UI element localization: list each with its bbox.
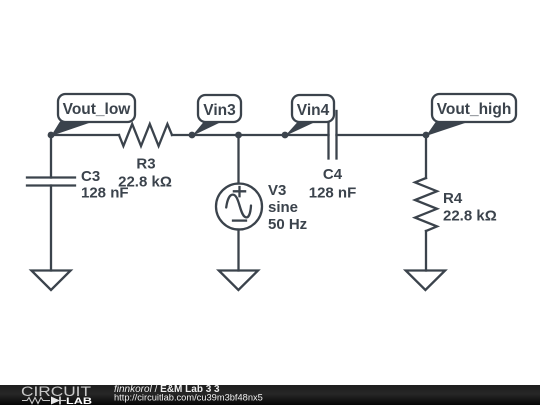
node Vin4 junction dot xyxy=(282,132,289,139)
net flag pointer Vout_high xyxy=(426,122,465,137)
net flag pointer Vin4 xyxy=(285,122,313,137)
node Vin3 junction dot xyxy=(189,132,196,139)
svg-text:http://circuitlab.com/cu39m3bf: http://circuitlab.com/cu39m3bf48nx5 xyxy=(114,392,263,402)
svg-text:R4: R4 xyxy=(443,190,463,207)
svg-text:128 nF: 128 nF xyxy=(309,185,357,202)
wire top net: Vout_low node to R3 left lead xyxy=(51,134,119,136)
svg-text:LAB: LAB xyxy=(66,396,92,405)
wire: C4 right plate to Vout_high node xyxy=(337,134,427,136)
svg-text:128 nF: 128 nF xyxy=(81,185,129,202)
capacitor C3 top plate xyxy=(27,176,75,178)
node junction dot at V3 tee xyxy=(235,132,242,139)
svg-text:V3: V3 xyxy=(268,182,286,199)
svg-text:22.8 kΩ: 22.8 kΩ xyxy=(443,207,497,224)
wire: Vout_high node down to R4 top lead xyxy=(425,135,427,178)
svg-text:C3: C3 xyxy=(81,168,100,185)
net flag pointer Vout_low xyxy=(51,122,89,137)
svg-text:Vout_low: Vout_low xyxy=(63,101,132,118)
capacitor C4 left plate xyxy=(327,111,329,159)
svg-text:Vin3: Vin3 xyxy=(203,102,236,119)
wire: R3 right lead to C4 left plate (through nodes Vin3, V3 tee, Vin4) xyxy=(172,134,329,136)
net flag box Vin4 xyxy=(292,95,334,122)
net flag box Vout_low xyxy=(58,94,135,122)
node Vout_high junction dot xyxy=(423,132,430,139)
wire: R4 bottom lead to ground xyxy=(425,231,427,271)
ground symbol at R4 xyxy=(406,271,445,291)
capacitor C3 bottom plate xyxy=(27,184,75,186)
capacitor C4 right plate xyxy=(335,111,337,159)
wire: C3 bottom plate down to ground xyxy=(50,186,52,271)
resistor R4 xyxy=(415,178,437,231)
V3 minus sign xyxy=(233,219,246,221)
node Vout_low junction dot xyxy=(48,132,55,139)
svg-text:Vin4: Vin4 xyxy=(297,102,330,119)
wire: Vout_low node down to C3 top plate xyxy=(50,135,52,178)
wire: top net tee down to V3 top terminal xyxy=(237,135,239,184)
V3 sine wave xyxy=(226,195,251,218)
V3 plus sign xyxy=(234,187,245,196)
logo diode symbol xyxy=(51,397,60,405)
svg-text:sine: sine xyxy=(268,199,298,216)
resistor R3 xyxy=(119,124,172,146)
svg-text:50 Hz: 50 Hz xyxy=(268,216,307,233)
net flag box Vout_high xyxy=(432,94,516,122)
svg-text:R3: R3 xyxy=(136,156,155,173)
ground symbol at V3 xyxy=(219,271,258,291)
wire: V3 bottom terminal to ground xyxy=(237,230,239,271)
voltage source V3 circle xyxy=(216,184,262,230)
net flag box Vin3 xyxy=(198,95,241,122)
net flag pointer Vin3 xyxy=(192,122,219,137)
svg-text:Vout_high: Vout_high xyxy=(437,101,512,118)
logo resistor squiggle xyxy=(22,398,50,404)
svg-text:C4: C4 xyxy=(323,166,343,183)
ground symbol at C3 xyxy=(31,271,70,291)
